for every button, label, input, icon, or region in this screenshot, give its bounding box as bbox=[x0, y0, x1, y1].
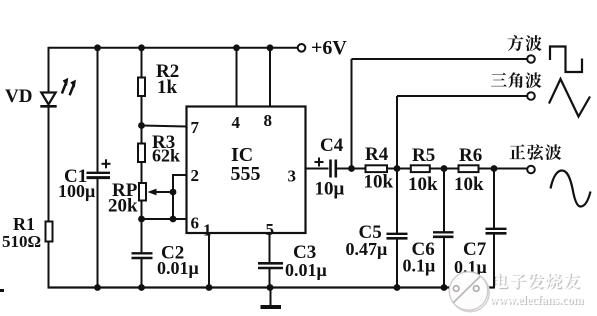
wire: pin 1 to bottom rail bbox=[208, 233, 210, 289]
wire: triangle wave riser bbox=[396, 96, 398, 169]
node: R5/R6/C6 junction bbox=[441, 165, 448, 172]
wire: RP bottom to pin6 line bbox=[141, 201, 143, 220]
svg-text:10k: 10k bbox=[408, 174, 438, 195]
wire: pin 3 output to C4 bbox=[306, 168, 329, 170]
capacitor C5 bbox=[387, 234, 408, 239]
wire: C1 branch from top rail bbox=[97, 48, 99, 172]
svg-text:VD: VD bbox=[5, 86, 32, 107]
svg-text:R1: R1 bbox=[13, 214, 35, 234]
resistor R3 bbox=[138, 144, 145, 163]
watermark text 电子发烧友 bbox=[494, 274, 581, 290]
resistor R6 bbox=[459, 165, 479, 172]
wire: left branch vertical (VD/R1) upper segment bbox=[48, 47, 50, 92]
icon: sine wave symbol bbox=[551, 171, 591, 207]
wire: junction down to C2 bbox=[141, 219, 143, 253]
capacitor C1 (electrolytic) bbox=[87, 159, 111, 177]
wire: R4 to R5 bbox=[387, 168, 411, 170]
node: wiper junction bbox=[170, 189, 177, 196]
wire: C6 to bottom rail bbox=[443, 237, 445, 289]
resistor R5 bbox=[411, 165, 430, 172]
node: R2/R3/pin7 junction bbox=[138, 122, 145, 129]
wire: C3 to bottom rail bbox=[269, 268, 271, 289]
svg-text:10μ: 10μ bbox=[315, 179, 345, 200]
wire: pin 4 to top rail bbox=[236, 48, 238, 107]
scan artifact mark left edge bbox=[0, 289, 4, 292]
svg-text:0.01μ: 0.01μ bbox=[285, 260, 327, 280]
svg-text:R6: R6 bbox=[459, 145, 482, 166]
node: top rail / pin 4 bbox=[233, 44, 240, 51]
svg-text:2: 2 bbox=[191, 166, 200, 185]
svg-text:62k: 62k bbox=[152, 146, 180, 166]
node: bottom rail / C6 bbox=[441, 284, 448, 291]
wire: C5 branch bbox=[396, 169, 398, 234]
wire: C2 to bottom rail bbox=[141, 258, 143, 289]
wire: R6 to sine terminal bbox=[479, 168, 528, 170]
svg-text:510Ω: 510Ω bbox=[2, 232, 41, 251]
svg-text:+6V: +6V bbox=[311, 37, 347, 59]
watermark logo disc bbox=[449, 272, 489, 312]
node: bottom rail / pin5-C3 junction bbox=[267, 284, 274, 291]
wire: C7 branch bbox=[493, 169, 495, 229]
wire: R2 branch from top rail bbox=[141, 48, 143, 78]
wire: R1 to bottom rail bbox=[48, 242, 50, 289]
capacitor C4 (electrolytic coupling) bbox=[315, 158, 336, 178]
terminal: square wave output bbox=[527, 55, 535, 63]
terminal: triangle wave output bbox=[527, 92, 535, 100]
label 方波 (square wave) bbox=[508, 35, 542, 51]
ground symbol bbox=[261, 288, 282, 308]
svg-text:www.elecfans.com: www.elecfans.com bbox=[490, 293, 584, 307]
wire: C1 to bottom rail bbox=[97, 178, 99, 289]
terminal: sine wave output bbox=[527, 166, 535, 174]
wire: RP wiper riser (pin 2 net) bbox=[172, 175, 174, 219]
svg-text:6: 6 bbox=[191, 214, 200, 233]
capacitor C3 bbox=[258, 263, 283, 268]
wire: C7 to bottom rail bbox=[493, 233, 495, 288]
svg-text:R5: R5 bbox=[412, 145, 435, 166]
potentiometer RP bbox=[139, 183, 173, 201]
node: RP bottom / pin 6 junction bbox=[138, 216, 145, 223]
wire: R5 to R6 bbox=[430, 168, 459, 170]
svg-text:8: 8 bbox=[264, 111, 273, 130]
svg-text:555: 555 bbox=[231, 163, 261, 185]
icon: triangle wave symbol bbox=[549, 79, 590, 117]
wire: pin 5 to C3 bbox=[269, 233, 271, 263]
wire: VD cathode to R1 bbox=[48, 106, 50, 221]
wire: pin 6 horizontal bbox=[142, 218, 187, 220]
node: R6/C7 junction bbox=[491, 165, 498, 172]
icon: square wave symbol bbox=[550, 47, 582, 73]
node: top rail / C1 junction bbox=[94, 44, 101, 51]
node: riser / pin6 line junction bbox=[170, 216, 177, 223]
wire: R2 to R3 bbox=[141, 96, 143, 144]
op-amp/timer IC U1 555 box bbox=[187, 107, 306, 234]
wire: square wave output lead bbox=[352, 58, 528, 60]
wire: R3 to RP bbox=[141, 162, 143, 183]
resistor R2 bbox=[138, 78, 145, 97]
wire: C4 to R4 bbox=[336, 168, 366, 170]
svg-text:1k: 1k bbox=[157, 77, 178, 98]
wire: pin 8 to top rail bbox=[269, 48, 271, 107]
terminal: +6V supply bbox=[298, 44, 306, 52]
wire: C6 branch bbox=[443, 169, 445, 233]
svg-text:3: 3 bbox=[288, 167, 297, 186]
capacitor C6 bbox=[433, 232, 454, 237]
node: bottom rail / C1 junction bbox=[94, 284, 101, 291]
node: triangle tap junction bbox=[394, 165, 401, 172]
node: top rail / R2 junction bbox=[138, 44, 145, 51]
svg-text:0.1μ: 0.1μ bbox=[403, 256, 436, 276]
svg-text:7: 7 bbox=[191, 118, 200, 137]
svg-text:100μ: 100μ bbox=[58, 181, 95, 201]
svg-text:C4: C4 bbox=[320, 135, 344, 156]
label 正弦波 (sine wave) bbox=[510, 144, 562, 160]
wire: ground/bottom rail bbox=[48, 286, 495, 288]
resistor R1 bbox=[46, 222, 53, 242]
node: bottom rail / pin 1 bbox=[206, 284, 213, 291]
wire: junction to pin 7 bbox=[142, 126, 187, 127]
svg-text:20k: 20k bbox=[108, 196, 138, 217]
svg-text:0.47μ: 0.47μ bbox=[346, 239, 388, 259]
wire: C5 to bottom rail bbox=[396, 238, 398, 288]
node: bottom rail / C5 bbox=[394, 284, 401, 291]
svg-text:4: 4 bbox=[232, 113, 241, 132]
label 三角波 (triangle wave) bbox=[491, 72, 541, 88]
svg-text:10k: 10k bbox=[454, 174, 484, 195]
wire: square wave riser bbox=[351, 59, 353, 169]
node: bottom rail / C2 junction bbox=[138, 284, 145, 291]
svg-text:1: 1 bbox=[203, 221, 212, 240]
LED VD (photodiode with light arrows) bbox=[40, 78, 76, 107]
node: top rail / pin 8 bbox=[267, 44, 274, 51]
svg-text:R4: R4 bbox=[365, 144, 389, 165]
wire: +6V top supply rail bbox=[49, 47, 298, 49]
capacitor C2 bbox=[132, 253, 153, 258]
svg-text:10k: 10k bbox=[364, 172, 394, 193]
resistor R4 bbox=[366, 165, 388, 172]
node: square-wave tap junction bbox=[348, 165, 355, 172]
capacitor C7 bbox=[486, 229, 507, 234]
wire: triangle wave output lead bbox=[397, 95, 528, 97]
svg-text:0.01μ: 0.01μ bbox=[157, 258, 199, 278]
wire: pin 2 horizontal bbox=[172, 174, 187, 176]
